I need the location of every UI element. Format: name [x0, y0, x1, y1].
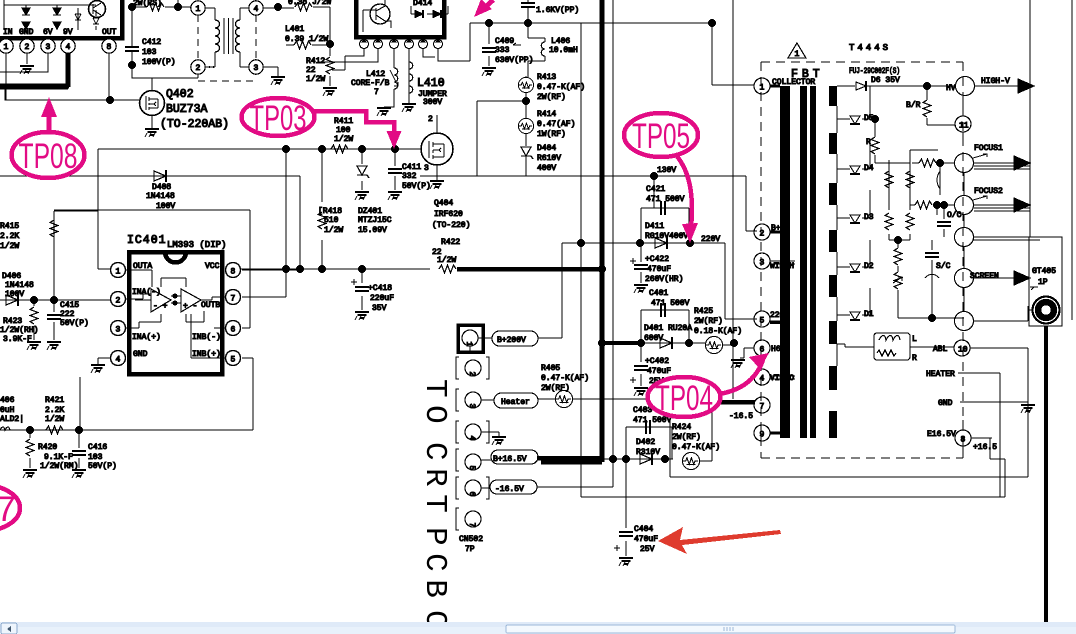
- junction: [923, 82, 931, 90]
- connector GT405 1P: [1029, 237, 1062, 326]
- svg-text:B+16.5V: B+16.5V: [493, 455, 527, 464]
- svg-text:15.09V: 15.09V: [358, 226, 387, 235]
- FBT pin 1 COLLECTOR: [754, 78, 770, 94]
- svg-text:Q404: Q404: [434, 199, 453, 208]
- svg-text:50V(P): 50V(P): [60, 319, 89, 328]
- svg-text:1N4148: 1N4148: [5, 281, 34, 290]
- wire +16.5 return: [971, 438, 1005, 497]
- pin circles (6): [360, 37, 443, 49]
- svg-text:470uF: 470uF: [647, 265, 671, 274]
- junction: [685, 339, 693, 347]
- junction: [933, 201, 941, 209]
- capacitor C402: [640, 343, 642, 386]
- node TP03: [312, 111, 394, 131]
- svg-text:0.47-K(AF): 0.47-K(AF): [672, 443, 720, 452]
- svg-text:10.0mH: 10.0mH: [549, 46, 578, 55]
- svg-text:50V(P): 50V(P): [402, 182, 431, 191]
- svg-text:2: 2: [428, 115, 433, 124]
- IC block (top-middle): [356, 0, 444, 37]
- svg-text:1: 1: [760, 84, 765, 93]
- diode D1: [837, 288, 870, 315]
- inductor L406 10.0mH: [528, 23, 545, 78]
- junction: [686, 239, 694, 247]
- wire (gate drive to Q402): [5, 88, 140, 100]
- junction: [106, 96, 114, 104]
- svg-text:HIGH-V: HIGH-V: [981, 77, 1010, 86]
- svg-text:Q402: Q402: [166, 88, 194, 101]
- IC body box: [0, 0, 122, 38]
- svg-text:1.6KV(PP): 1.6KV(PP): [536, 6, 579, 15]
- svg-text:8: 8: [107, 43, 112, 52]
- junction: [577, 239, 585, 247]
- junction: [636, 239, 644, 247]
- svg-text:5: 5: [467, 466, 476, 471]
- svg-text:9: 9: [760, 431, 765, 440]
- wire (CN pin stubs): [469, 346, 471, 352]
- svg-text:D414: D414: [413, 0, 432, 8]
- capacitor 1.6KV(PP): [527, 0, 529, 23]
- svg-text:OUT: OUT: [102, 28, 117, 37]
- capacitor C409: [488, 23, 490, 66]
- svg-text:D6 35V: D6 35V: [871, 76, 900, 85]
- annotation red arrow (C404): [658, 527, 781, 554]
- junction: [26, 426, 34, 434]
- svg-text:R421: R421: [45, 396, 64, 405]
- wire B+200V: [538, 337, 562, 339]
- svg-text:-16.5V: -16.5V: [495, 485, 524, 494]
- svg-text:1: 1: [795, 50, 800, 59]
- unlabeled output circle: [955, 228, 974, 247]
- svg-text:D402: D402: [636, 438, 655, 447]
- svg-text:2: 2: [116, 297, 121, 306]
- test point callouts: [0, 0, 769, 531]
- svg-text:C421: C421: [646, 185, 665, 194]
- svg-text:5: 5: [231, 356, 236, 365]
- svg-text:1: 1: [4, 43, 9, 52]
- unlabeled output circle: [955, 312, 974, 331]
- svg-text:2.2K: 2.2K: [0, 232, 19, 241]
- wire (winding bottom tap): [837, 344, 845, 366]
- svg-text:222: 222: [60, 310, 75, 319]
- wire (B+ thick bus): [600, 0, 605, 456]
- svg-text:D408: D408: [152, 183, 171, 192]
- svg-text:INB(-): INB(-): [192, 333, 221, 342]
- svg-text:7: 7: [467, 523, 476, 528]
- svg-text:L401: L401: [285, 25, 304, 34]
- svg-text:7: 7: [374, 88, 379, 97]
- svg-text:TP08: TP08: [19, 137, 78, 176]
- zener DZ401 MTZJ15C: [361, 149, 363, 190]
- wire B+16.5V thick: [541, 460, 602, 465]
- svg-text:1/2W: 1/2W: [0, 242, 19, 251]
- zener pair D-a: [22, 8, 30, 29]
- ground: [634, 388, 648, 396]
- svg-text:103: 103: [142, 48, 157, 57]
- svg-text:2: 2: [760, 230, 765, 239]
- svg-text:FOCUS1: FOCUS1: [974, 144, 1003, 153]
- pin 1,2,3,4,8 circles: [0, 39, 13, 53]
- svg-text:6: 6: [231, 326, 236, 335]
- transistor (internal): [370, 4, 390, 24]
- ground: [377, 108, 391, 116]
- svg-text:D406: D406: [2, 272, 21, 281]
- svg-text:+C402: +C402: [645, 357, 669, 366]
- wire (pin 5): [242, 358, 253, 430]
- svg-text:1W(RF): 1W(RF): [537, 130, 566, 139]
- svg-text:FUJ-29C002F(S): FUJ-29C002F(S): [849, 67, 900, 76]
- svg-text:0.47(AF): 0.47(AF): [537, 120, 575, 129]
- svg-text:D3: D3: [864, 213, 874, 222]
- ground: [27, 342, 41, 350]
- svg-text:D2: D2: [864, 262, 874, 271]
- wire -16.5V: [537, 486, 613, 488]
- pin 1-8 circles of IC401: [111, 263, 126, 278]
- svg-text:2: 2: [25, 43, 30, 52]
- junction: [358, 265, 366, 273]
- svg-text:130V: 130V: [657, 166, 676, 175]
- svg-text:260V(HR): 260V(HR): [645, 275, 683, 284]
- svg-text:100V(P): 100V(P): [142, 58, 176, 67]
- svg-text:SCREEN: SCREEN: [970, 272, 999, 281]
- junction: [326, 40, 334, 48]
- svg-text:3: 3: [254, 64, 259, 73]
- junction: [609, 455, 617, 463]
- wire (IC401 input nets): [54, 211, 112, 300]
- wire (gate net): [98, 148, 421, 150]
- ground: [145, 129, 159, 137]
- wire (C412 to transformer): [132, 7, 146, 78]
- svg-text:L: L: [912, 335, 917, 344]
- svg-text:R405: R405: [541, 364, 560, 373]
- junction: [650, 172, 658, 180]
- svg-text:510: 510: [324, 216, 339, 225]
- svg-text:3: 3: [760, 259, 765, 268]
- callout arrow (top): [481, 0, 493, 11]
- svg-text:Heater: Heater: [501, 398, 530, 407]
- svg-text:MTZJ15C: MTZJ15C: [358, 216, 392, 225]
- svg-text:+ -: + -: [183, 302, 197, 311]
- junction: [936, 159, 944, 167]
- wire (vertical nets): [560, 0, 1005, 497]
- junction: [75, 426, 83, 434]
- svg-text:22: 22: [306, 66, 316, 75]
- svg-text:2W(RF): 2W(RF): [541, 384, 570, 393]
- capacitor C416: [78, 430, 80, 468]
- ground: [355, 312, 369, 320]
- svg-text:1/2W: 1/2W: [334, 135, 353, 144]
- svg-text:3: 3: [424, 164, 429, 173]
- svg-text:470uF: 470uF: [634, 535, 658, 544]
- svg-text:R415: R415: [0, 222, 19, 231]
- svg-text:220V: 220V: [770, 311, 789, 320]
- svg-text:406: 406: [0, 396, 15, 405]
- svg-text:R424: R424: [672, 423, 691, 432]
- svg-text:GT405: GT405: [1032, 267, 1056, 276]
- svg-text:1N4148: 1N4148: [146, 192, 175, 201]
- svg-text:4: 4: [254, 5, 259, 14]
- svg-text:CORE-F/B: CORE-F/B: [351, 79, 390, 88]
- svg-text:IRF620: IRF620: [434, 210, 463, 219]
- ground: [20, 66, 34, 74]
- node TP05: [676, 155, 692, 228]
- svg-text:0.47-K(AF): 0.47-K(AF): [537, 83, 585, 92]
- wire (130V node): [420, 175, 712, 177]
- junction: [50, 296, 58, 304]
- junction: [524, 19, 532, 27]
- ground: [619, 558, 633, 566]
- svg-text:0.47-K(AF): 0.47-K(AF): [541, 374, 589, 383]
- svg-text:D1: D1: [864, 310, 874, 319]
- wire (pin 8 output): [972, 437, 992, 439]
- transformer dashed outline: [198, 15, 256, 81]
- svg-text:2: 2: [196, 64, 201, 73]
- svg-text:100V: 100V: [156, 202, 175, 211]
- svg-text:-16.5: -16.5: [729, 412, 753, 421]
- svg-text:LM393 (DIP): LM393 (DIP): [167, 240, 226, 250]
- svg-text:9V: 9V: [63, 28, 73, 37]
- junction: [485, 19, 493, 27]
- svg-text:IN: IN: [3, 28, 13, 37]
- svg-text:7P: 7P: [465, 545, 475, 554]
- label TO CRT PCB C: [417, 379, 452, 634]
- ground: [355, 192, 369, 200]
- capacitor C418: [361, 269, 363, 310]
- junction: [661, 455, 669, 463]
- CN502 pin circles 1-7: [458, 325, 483, 352]
- svg-text:10: 10: [958, 346, 968, 355]
- wire (pin leads): [0, 53, 48, 100]
- horizontal scrollbar: [0, 622, 1076, 634]
- svg-text:4: 4: [116, 356, 121, 365]
- svg-text:C412: C412: [142, 38, 161, 47]
- diode D5: [837, 86, 870, 119]
- junction: [637, 339, 645, 347]
- svg-text:TP04: TP04: [655, 379, 713, 418]
- svg-text:1: 1: [464, 342, 473, 347]
- svg-text:2: 2: [467, 372, 476, 377]
- junction: [128, 3, 136, 11]
- svg-text:R414: R414: [537, 110, 556, 119]
- transformer pins 1,2,4,3: [191, 1, 205, 15]
- svg-text:2W(RF): 2W(RF): [672, 433, 701, 442]
- junction: [598, 339, 606, 347]
- node TP08: [12, 132, 85, 178]
- node B+200V / Heater / B+16.5V / -16.5V ovals: [478, 337, 492, 339]
- junction: [708, 19, 716, 27]
- transistor Q402 BUZ73A: [140, 91, 165, 116]
- diode D404 R610V: [521, 147, 533, 159]
- svg-text:B+200V: B+200V: [497, 336, 526, 345]
- junction: [730, 339, 738, 347]
- transformer windings and core: [205, 8, 215, 67]
- diode D408 1N4148: [0, 176, 300, 268]
- svg-text:400V: 400V: [537, 164, 556, 173]
- svg-text:L406: L406: [551, 37, 570, 46]
- junction: [128, 61, 136, 69]
- svg-text:1: 1: [116, 268, 121, 277]
- node TP07 (partial): [0, 485, 20, 531]
- svg-text:3: 3: [467, 404, 476, 409]
- svg-text:7: 7: [231, 295, 236, 304]
- svg-text:GND: GND: [133, 350, 148, 359]
- ground: [482, 68, 496, 76]
- svg-text:100V: 100V: [5, 290, 24, 299]
- svg-text:C416: C416: [88, 443, 107, 452]
- svg-text:D404: D404: [537, 144, 556, 153]
- svg-text:25V: 25V: [640, 545, 655, 554]
- svg-text:R413: R413: [537, 73, 556, 82]
- ground: [1021, 405, 1035, 413]
- wire (IC internal): [4, 0, 96, 30]
- wire (focus feed resistors): [910, 149, 938, 151]
- svg-text:O/C: O/C: [947, 211, 962, 220]
- svg-text:7: 7: [760, 403, 765, 412]
- junction: [318, 265, 326, 273]
- junction: [940, 201, 948, 209]
- diode D2: [837, 240, 870, 267]
- svg-text:INA(+): INA(+): [132, 333, 161, 342]
- svg-text:IC401: IC401: [127, 234, 167, 247]
- svg-text:1/2W(RH): 1/2W(RH): [0, 326, 38, 335]
- svg-text:L412: L412: [366, 70, 385, 79]
- svg-text:CRT: CRT: [417, 442, 452, 520]
- junction: [609, 455, 617, 463]
- svg-text:220uF: 220uF: [370, 294, 394, 303]
- svg-text:(TO-220): (TO-220): [432, 221, 470, 230]
- resistor R418: [321, 149, 323, 269]
- svg-text:D411: D411: [645, 222, 664, 231]
- svg-text:E16.5V: E16.5V: [927, 430, 956, 439]
- FBT pin 10: [954, 340, 970, 356]
- junction: [928, 314, 936, 322]
- resistor R415: [50, 220, 58, 237]
- svg-text:TP05: TP05: [632, 117, 690, 156]
- svg-text:R423: R423: [3, 317, 22, 326]
- capacitor C422: [640, 243, 642, 283]
- junction: [296, 265, 304, 273]
- svg-text:1/2W: 1/2W: [306, 75, 325, 84]
- svg-text:470uF: 470uF: [647, 367, 671, 376]
- svg-text:6: 6: [467, 492, 476, 497]
- svg-text:D4: D4: [864, 164, 874, 173]
- diode D4: [837, 140, 870, 169]
- ground: [402, 104, 416, 112]
- wire (pin leads): [318, 49, 470, 70]
- node TP04: [719, 360, 763, 394]
- svg-text:11: 11: [959, 122, 969, 131]
- inductor-resistor L/R network: [874, 333, 910, 360]
- resistor R420: [29, 430, 31, 468]
- transistor (internal): [89, 1, 106, 18]
- svg-text:+C418: +C418: [368, 284, 392, 293]
- FBT pins 2,3,5,6,4,7,9: [754, 224, 770, 240]
- svg-text:2W(RF): 2W(RF): [694, 317, 723, 326]
- junction: [871, 115, 879, 123]
- junction: [894, 236, 902, 244]
- wire (130V top rail): [438, 23, 712, 61]
- warning triangle 1: [788, 43, 806, 58]
- svg-text:D401 RU20A: D401 RU20A: [644, 324, 692, 333]
- svg-text:4: 4: [467, 436, 476, 441]
- ground: [481, 432, 499, 436]
- svg-text:R610V: R610V: [537, 154, 561, 163]
- node -16.5: [711, 400, 755, 405]
- svg-text:T444S: T444S: [849, 43, 891, 53]
- diode D3: [837, 190, 870, 218]
- junction: [318, 145, 326, 153]
- svg-text:2.2K: 2.2K: [45, 406, 64, 415]
- svg-text:103: 103: [88, 453, 103, 462]
- svg-text:BUZ73A: BUZ73A: [166, 103, 208, 116]
- svg-text:3: 3: [116, 326, 121, 335]
- svg-text:S/C: S/C: [936, 262, 951, 271]
- svg-text:+C422: +C422: [645, 255, 669, 264]
- svg-text:0.39 1/2W: 0.39 1/2W: [285, 35, 328, 44]
- svg-text:ABL: ABL: [933, 345, 948, 354]
- svg-text:B/R: B/R: [906, 101, 921, 110]
- resistor R414: [518, 118, 533, 133]
- diode D6: [837, 85, 855, 87]
- svg-text:300V: 300V: [423, 98, 442, 107]
- inductor L410 JUMPER 300V: [408, 49, 410, 103]
- svg-text:0.18-K(AF): 0.18-K(AF): [694, 327, 742, 336]
- resistor R423: [33, 300, 35, 340]
- svg-text:35V: 35V: [372, 304, 387, 313]
- frame right border lines: [1030, 0, 1072, 320]
- svg-text:1P: 1P: [1038, 278, 1048, 287]
- ground: [634, 285, 648, 293]
- node TP08 arrow: [47, 112, 52, 133]
- svg-text:R425: R425: [694, 307, 713, 316]
- junction: [282, 145, 290, 153]
- op-amp triangles: [135, 289, 171, 312]
- svg-text:FOCUS2: FOCUS2: [974, 187, 1003, 196]
- pin 11: [955, 116, 971, 132]
- svg-text:1/2W: 1/2W: [437, 256, 456, 265]
- capacitor C404: [625, 459, 627, 556]
- svg-text:8: 8: [231, 268, 236, 277]
- wire (220V to FBT pin 5): [725, 243, 757, 319]
- svg-text:GND: GND: [938, 399, 953, 408]
- junction: [391, 145, 399, 153]
- wire (bottom feedback bus): [0, 429, 253, 431]
- svg-text:OUTB: OUTB: [201, 301, 220, 310]
- svg-text:TO: TO: [417, 379, 452, 431]
- svg-text:TP03: TP03: [250, 99, 307, 138]
- svg-text:332: 332: [402, 172, 417, 181]
- svg-text:ALD2|: ALD2|: [0, 415, 24, 424]
- junction: [622, 455, 630, 463]
- capacitor C412: [131, 40, 133, 65]
- junction: [30, 296, 38, 304]
- ground: [430, 181, 444, 189]
- svg-text:5: 5: [760, 317, 765, 326]
- ground: [91, 365, 105, 373]
- ground: [277, 67, 279, 76]
- svg-text:CN502: CN502: [459, 535, 483, 544]
- junction: [282, 265, 290, 273]
- svg-text:VCC: VCC: [205, 262, 220, 271]
- svg-text:333: 333: [495, 46, 510, 55]
- ground: [47, 342, 61, 350]
- svg-text:50V(P): 50V(P): [88, 462, 117, 471]
- FBT dashed outline: [761, 62, 963, 458]
- junction: [598, 265, 606, 273]
- svg-text:471 500V: 471 500V: [651, 299, 690, 308]
- svg-text:1/2W: 1/2W: [45, 415, 64, 424]
- svg-text:2W(RF): 2W(RF): [537, 93, 566, 102]
- ground: [23, 470, 37, 478]
